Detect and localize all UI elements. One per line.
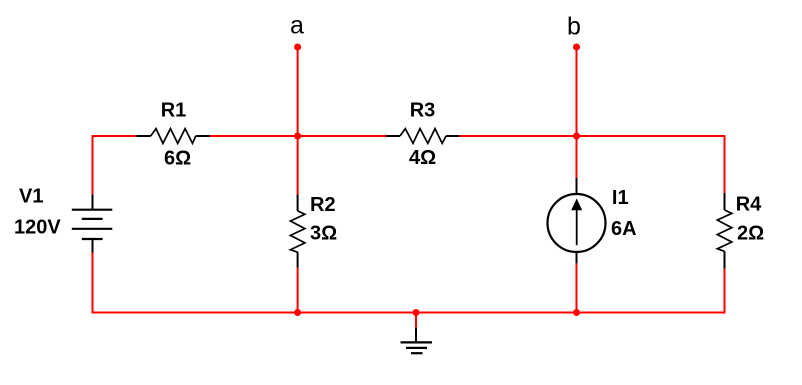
svg-text:R2: R2 [310,194,336,216]
svg-text:6A: 6A [611,218,637,240]
svg-text:4Ω: 4Ω [409,147,436,169]
svg-text:6Ω: 6Ω [164,148,191,170]
svg-text:2Ω: 2Ω [737,223,764,245]
svg-text:V1: V1 [19,186,43,208]
svg-text:b: b [567,13,581,41]
svg-text:3Ω: 3Ω [310,223,337,245]
svg-text:I1: I1 [612,187,629,209]
svg-text:R3: R3 [410,100,436,122]
svg-text:a: a [290,12,304,40]
svg-text:R1: R1 [161,100,187,122]
svg-text:120V: 120V [14,217,61,239]
svg-text:R4: R4 [736,194,762,216]
